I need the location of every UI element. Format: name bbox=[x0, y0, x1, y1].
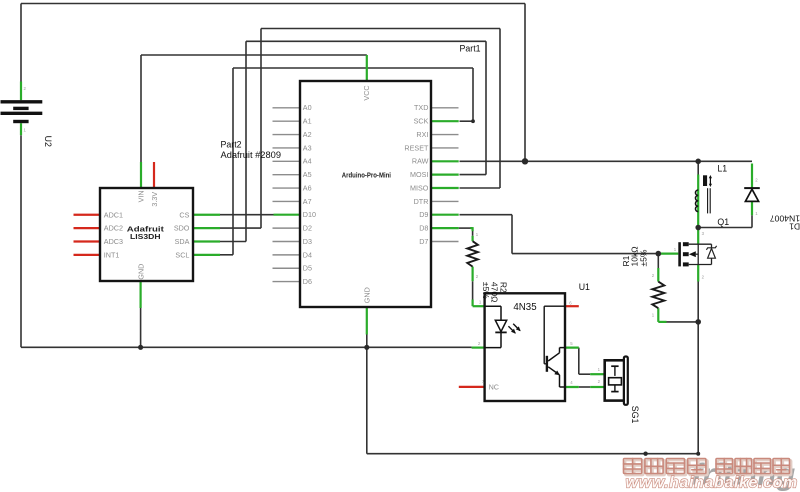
svg-text:3.3V: 3.3V bbox=[150, 192, 159, 207]
svg-text:RXI: RXI bbox=[416, 130, 428, 139]
svg-text:D10: D10 bbox=[303, 210, 316, 219]
svg-text:Arduino-Pro-Mini: Arduino-Pro-Mini bbox=[342, 170, 391, 179]
svg-text:RAW: RAW bbox=[412, 157, 429, 166]
svg-text:D3: D3 bbox=[303, 237, 312, 246]
svg-text:D7: D7 bbox=[419, 237, 428, 246]
svg-text:Part2: Part2 bbox=[221, 140, 242, 150]
svg-text:SCL: SCL bbox=[175, 250, 189, 259]
svg-text:CS: CS bbox=[179, 210, 189, 219]
svg-text:U1: U1 bbox=[579, 282, 590, 292]
svg-text:ADC3: ADC3 bbox=[104, 237, 123, 246]
svg-text:D4: D4 bbox=[303, 250, 312, 259]
svg-text:1N4007: 1N4007 bbox=[770, 213, 800, 223]
svg-text:±5%: ±5% bbox=[639, 249, 649, 266]
svg-text:SDA: SDA bbox=[175, 237, 190, 246]
svg-text:A0: A0 bbox=[303, 103, 312, 112]
svg-text:DTR: DTR bbox=[414, 197, 429, 206]
svg-text:ADC2: ADC2 bbox=[104, 224, 123, 233]
svg-text:D5: D5 bbox=[303, 264, 312, 273]
svg-text:Part1: Part1 bbox=[460, 44, 481, 54]
svg-text:TXD: TXD bbox=[414, 103, 428, 112]
svg-text:Q1: Q1 bbox=[717, 217, 729, 227]
svg-text:D9: D9 bbox=[419, 210, 428, 219]
svg-text:A3: A3 bbox=[303, 143, 312, 152]
svg-text:GND: GND bbox=[136, 264, 145, 280]
svg-text:Adafruit #2809: Adafruit #2809 bbox=[221, 150, 282, 160]
svg-text:MISO: MISO bbox=[410, 183, 429, 192]
svg-text:A4: A4 bbox=[303, 157, 312, 166]
svg-text:±5%: ±5% bbox=[481, 282, 491, 299]
svg-text:U2: U2 bbox=[43, 136, 53, 147]
svg-text:D8: D8 bbox=[419, 224, 428, 233]
svg-text:A5: A5 bbox=[303, 170, 312, 179]
svg-text:MOSI: MOSI bbox=[410, 170, 428, 179]
svg-text:A2: A2 bbox=[303, 130, 312, 139]
svg-text:L1: L1 bbox=[717, 163, 727, 173]
svg-text:SDO: SDO bbox=[174, 224, 190, 233]
svg-text:VIN: VIN bbox=[136, 190, 145, 202]
svg-text:D6: D6 bbox=[303, 277, 312, 286]
svg-text:LIS3DH: LIS3DH bbox=[130, 232, 161, 241]
svg-text:A7: A7 bbox=[303, 197, 312, 206]
svg-text:VCC: VCC bbox=[362, 85, 371, 100]
svg-text:RESET: RESET bbox=[404, 143, 429, 152]
svg-text:NC: NC bbox=[489, 382, 499, 391]
svg-text:GND: GND bbox=[363, 287, 372, 303]
svg-text:A1: A1 bbox=[303, 117, 312, 126]
svg-text:SCK: SCK bbox=[414, 117, 429, 126]
svg-text:4N35: 4N35 bbox=[513, 302, 537, 313]
svg-text:ADC1: ADC1 bbox=[104, 210, 123, 219]
svg-text:www.hainabaike.com: www.hainabaike.com bbox=[626, 475, 798, 492]
svg-text:A6: A6 bbox=[303, 183, 312, 192]
svg-text:SG1: SG1 bbox=[630, 406, 640, 424]
svg-text:D2: D2 bbox=[303, 224, 312, 233]
svg-text:INT1: INT1 bbox=[104, 250, 120, 259]
